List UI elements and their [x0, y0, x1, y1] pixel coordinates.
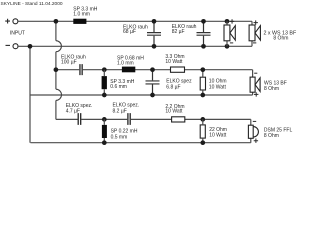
node mid shunt L bottom — [102, 93, 107, 98]
wire feed drop vertical with hops — [55, 21, 57, 40]
node R2 top — [200, 67, 205, 72]
wire mid speaker leads — [252, 70, 254, 95]
svg-text:8 Ohm: 8 Ohm — [273, 36, 288, 42]
svg-text:1.0 mm: 1.0 mm — [117, 61, 134, 67]
node R2 bottom — [200, 93, 205, 98]
node C4 top — [150, 67, 155, 72]
input + terminal — [5, 19, 18, 24]
node R4 top — [200, 117, 205, 122]
inductor L1 SP 3.3 mH — [73, 19, 86, 24]
plus mark woofer1 — [230, 19, 234, 23]
node C2 top — [201, 19, 206, 24]
capacitor C6 8.2uF — [128, 113, 130, 125]
svg-text:0.6 mm: 0.6 mm — [110, 84, 127, 90]
wire R2 leads — [202, 70, 204, 95]
resistor R1 3.3 Ohm — [171, 67, 185, 72]
node tweeter shunt L top — [102, 117, 107, 122]
capacitor C1 68uF — [147, 23, 161, 44]
node mid shunt L top — [102, 67, 107, 72]
wire woofer1 top lead — [226, 21, 228, 25]
svg-text:10 Watt: 10 Watt — [165, 109, 183, 115]
svg-text:10 Watt: 10 Watt — [165, 59, 183, 65]
minus mark woofer1 — [230, 42, 233, 44]
wire tweeter feed rail — [56, 118, 251, 120]
svg-text:8 Ohm: 8 Ohm — [264, 133, 279, 139]
svg-text:1.0 mm: 1.0 mm — [73, 12, 90, 18]
plus mark woofer2 — [254, 20, 258, 24]
svg-text:8.2 µF: 8.2 µF — [113, 108, 127, 114]
speaker LS2 woofer2 — [249, 25, 260, 41]
wire L4 leads — [103, 119, 105, 142]
inductor L4 SP 0.22 mH — [102, 125, 107, 138]
wire top + rail — [18, 20, 252, 22]
capacitor C3 100uF — [80, 64, 82, 75]
node junction top rail feed — [54, 19, 59, 24]
speaker LS4 tweeter DSM — [248, 125, 258, 138]
node junction minus rail — [28, 44, 33, 49]
minus mark midrange — [254, 72, 257, 74]
wire L2 leads — [103, 70, 105, 95]
plus mark midrange — [254, 92, 258, 96]
node C2 bottom — [201, 44, 206, 49]
node tweeter shunt L bottom — [102, 140, 107, 145]
node junction mid feed — [54, 67, 59, 72]
capacitor C5 4.7uF — [78, 113, 81, 125]
wire bottom bus — [31, 142, 251, 144]
svg-text:82 µF: 82 µF — [172, 29, 185, 35]
plus mark tweeter — [254, 139, 258, 143]
resistor R2 10 Ohm — [200, 77, 205, 90]
minus mark woofer2 — [253, 42, 256, 44]
wire - rail — [18, 45, 252, 47]
wire R4 leads — [202, 119, 204, 142]
wire woofer1 bottom lead — [226, 41, 228, 47]
capacitor C2 82uF — [197, 23, 211, 44]
wire woofer2 top lead — [251, 21, 253, 25]
node C1 top — [152, 19, 157, 24]
input - terminal — [6, 44, 19, 49]
capacitor C4 6.8uF — [146, 72, 160, 93]
svg-text:INPUT: INPUT — [10, 31, 25, 37]
wire woofer2 bottom lead — [251, 41, 253, 47]
resistor R4 22 Ohm — [200, 125, 205, 138]
resistor R3 2.2 Ohm — [172, 117, 185, 122]
wire mid feed rail — [56, 69, 253, 71]
inductor L2 shunt 3.3mH — [102, 76, 107, 89]
speaker LS1 woofer1 — [224, 25, 235, 41]
minus mark tweeter — [253, 120, 256, 122]
node woofer top — [225, 19, 230, 24]
node C1 bottom — [152, 44, 157, 49]
svg-text:SKYLINE - Stand 11.04.2000: SKYLINE - Stand 11.04.2000 — [1, 1, 63, 7]
svg-text:68 µF: 68 µF — [123, 29, 136, 35]
wire tweeter leads — [250, 119, 252, 142]
svg-text:6.8 µF: 6.8 µF — [166, 84, 180, 90]
wire mid return rail — [31, 94, 253, 96]
wire minus drop vertical — [29, 46, 31, 142]
speaker LS3 midrange — [250, 77, 260, 92]
svg-text:10 Watt: 10 Watt — [209, 84, 227, 90]
inductor L3 SP 0.68 mH — [122, 67, 135, 73]
svg-text:0.5 mm: 0.5 mm — [111, 134, 128, 140]
svg-text:100 µF: 100 µF — [61, 60, 77, 66]
svg-text:10 Watt: 10 Watt — [209, 133, 227, 139]
node C4 bottom — [150, 93, 155, 98]
node R4 bottom — [200, 140, 205, 145]
node woofer bottom — [225, 44, 230, 49]
svg-text:8 Ohm: 8 Ohm — [264, 86, 279, 92]
